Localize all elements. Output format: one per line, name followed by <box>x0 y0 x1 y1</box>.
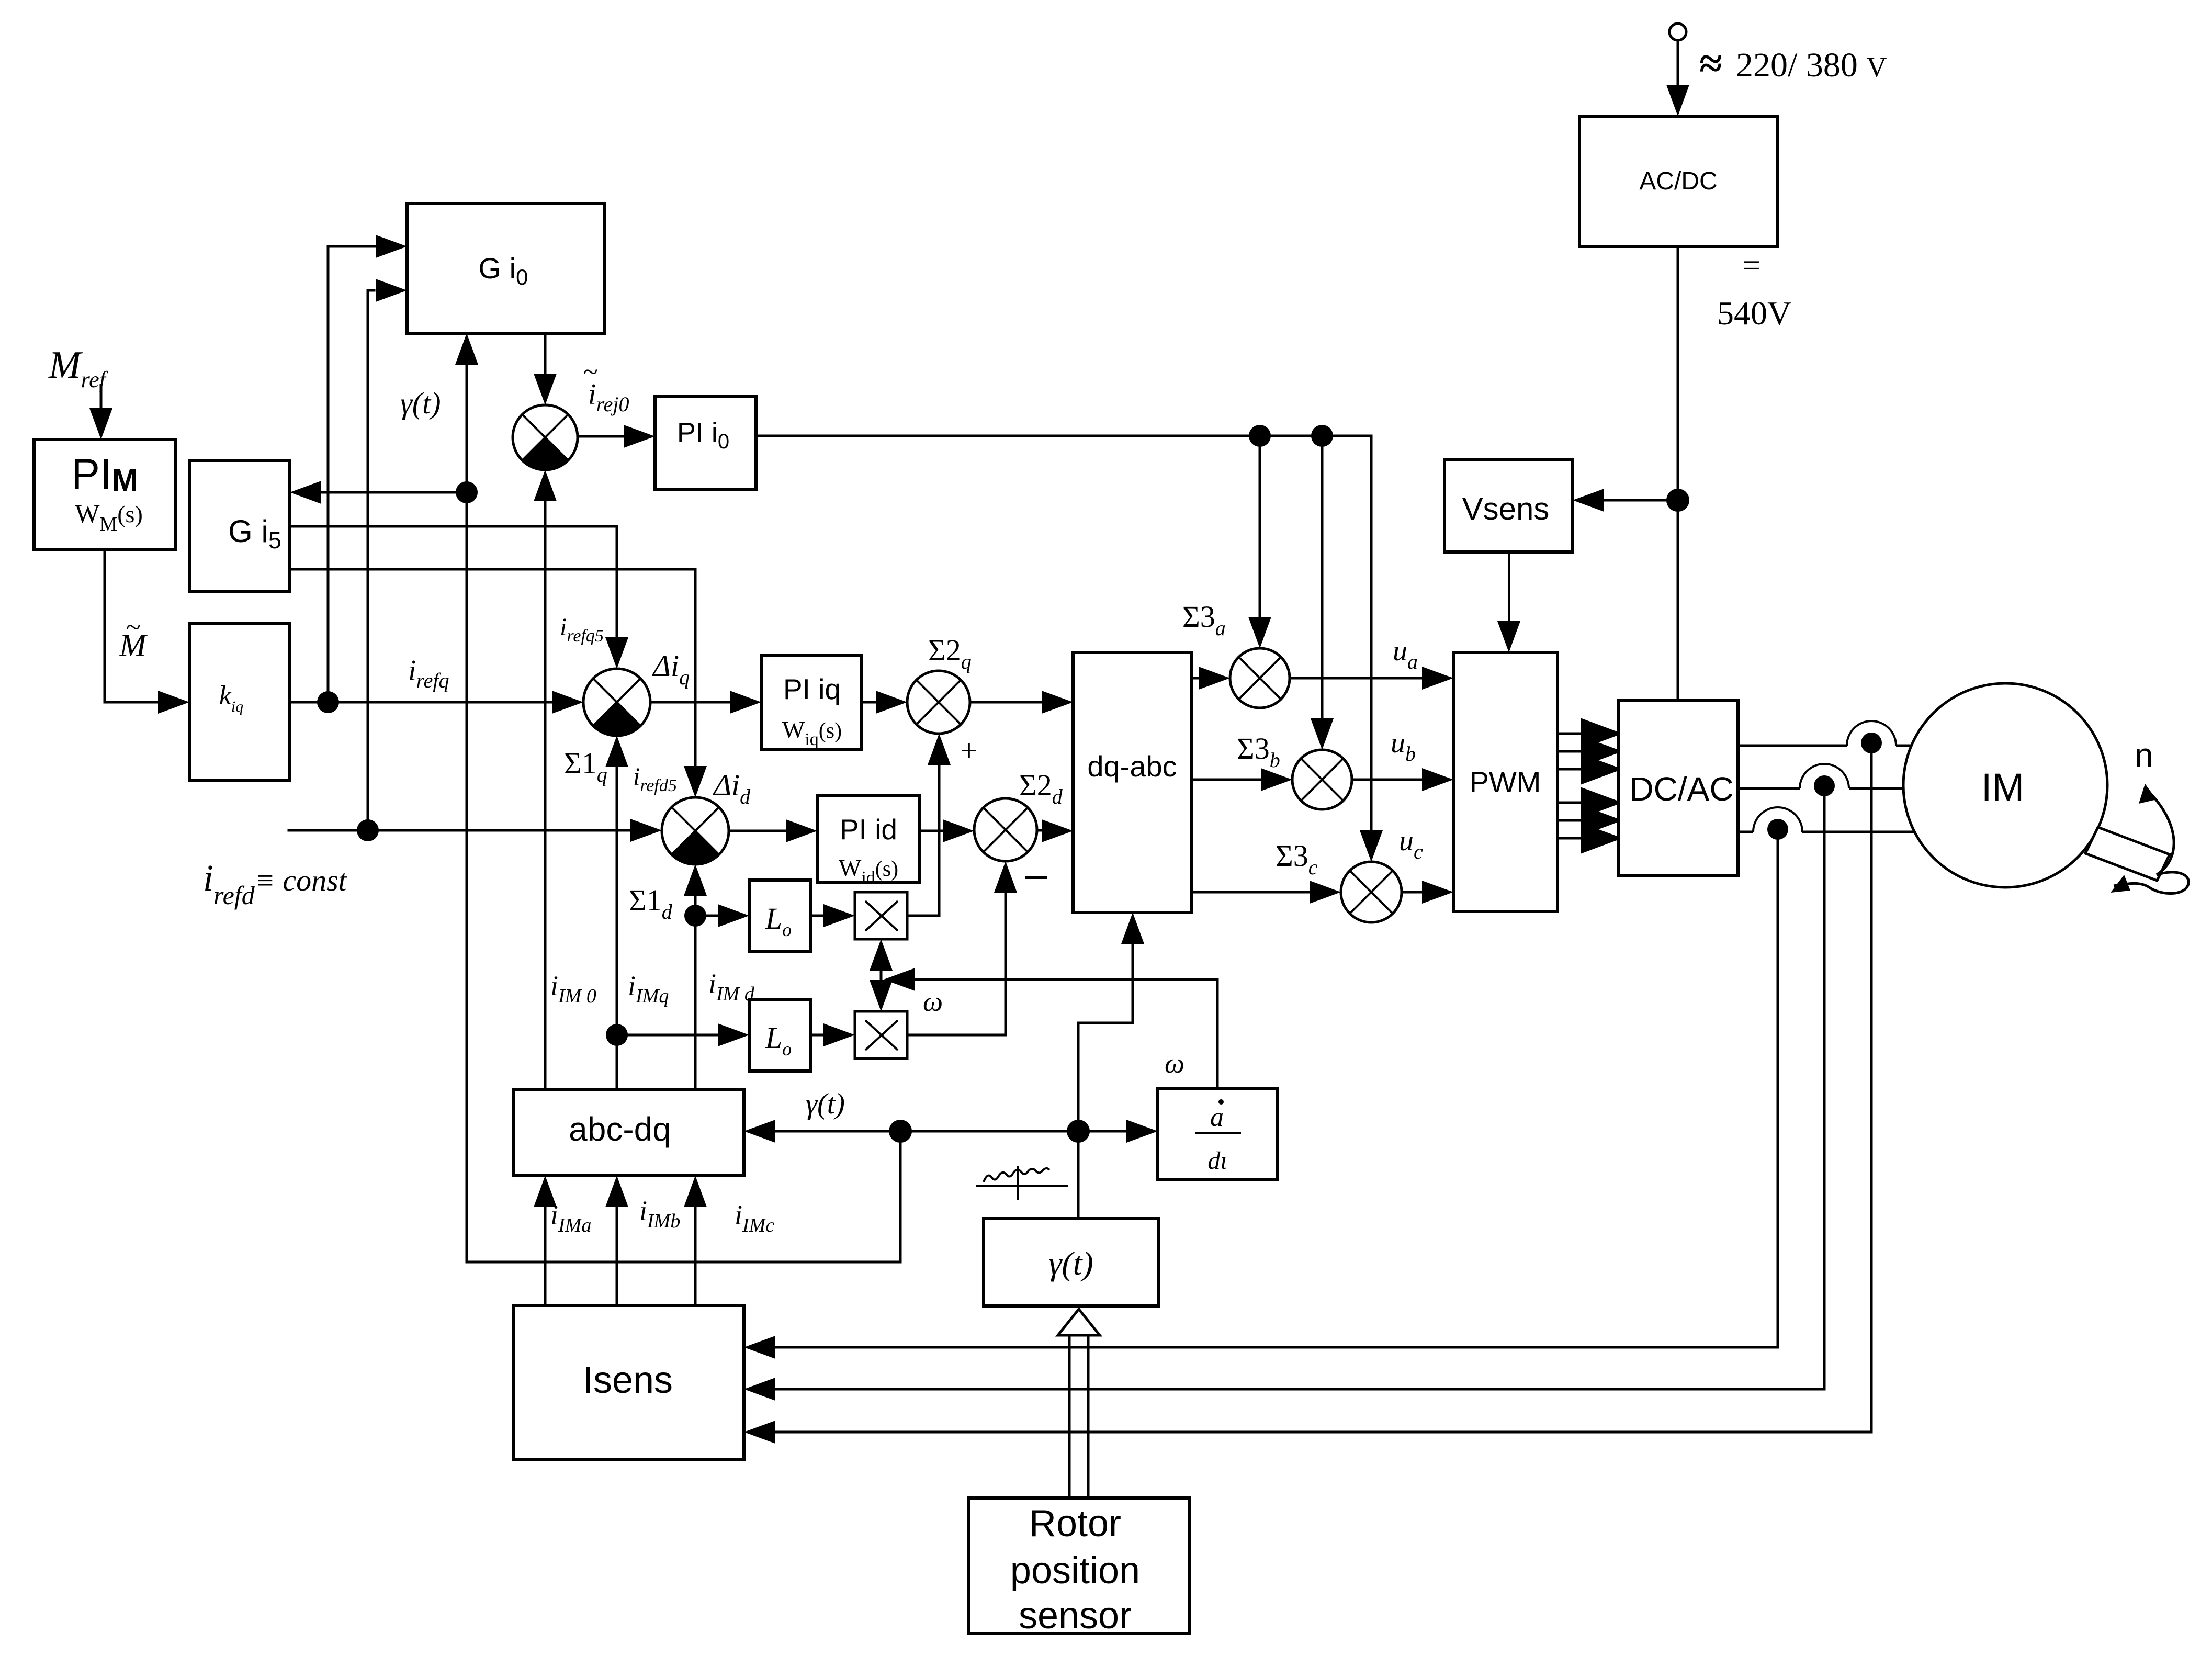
block k_iq <box>189 624 290 781</box>
wire G i5 output B to sum1d top <box>290 569 695 766</box>
wire gamma(t) vertical column to G i0 bottom <box>466 365 468 1262</box>
annotation squiggle crossed out <box>984 1168 1049 1182</box>
wire Isens output i_IMc up to abc-dq <box>694 1207 697 1305</box>
wire phase c line to IM <box>1738 831 1753 833</box>
wire PI iq output to sum2q <box>861 701 876 704</box>
svg-text:DC/AC: DC/AC <box>1629 770 1733 808</box>
node PI i0 line branch a <box>1249 425 1271 447</box>
svg-text:IM: IM <box>1981 765 2024 809</box>
current sensor phase a <box>1847 721 1896 746</box>
node on i_refd row <box>357 819 379 841</box>
summing junction sum3b <box>1292 750 1352 809</box>
wire omega line from d/dt to multipliers <box>915 979 1217 1088</box>
wire sum3b output u_b to PWM <box>1352 779 1422 781</box>
svg-text:≈: ≈ <box>1699 41 1722 87</box>
svg-text:γ(t): γ(t) <box>1048 1245 1093 1282</box>
wire Isens output i_IMa up to abc-dq <box>544 1207 547 1305</box>
node gamma row right <box>1067 1120 1090 1143</box>
wire M_ref input arrow <box>100 385 103 419</box>
svg-text:~: ~ <box>126 613 140 643</box>
summing junction sum1q <box>583 669 650 736</box>
wire dq-abc output c to sum3c <box>1192 891 1310 894</box>
svg-text:+: + <box>961 734 978 768</box>
wire sum3c output u_c to PWM <box>1402 891 1422 894</box>
wire sum0 output to PI i0 <box>577 435 624 438</box>
svg-text:a: a <box>1210 1102 1224 1132</box>
wire i_IMq column up into sum1q <box>616 767 618 1089</box>
wire G i5 output A to sum1q top <box>290 526 617 637</box>
wire i_refd row to sum1d <box>289 829 630 832</box>
node gamma row left <box>889 1120 912 1143</box>
wire dq-abc output b to sum3b <box>1192 779 1261 781</box>
block rotor position sensor <box>968 1498 1189 1634</box>
block PI i0 <box>655 396 756 489</box>
summing junction sum0 <box>513 405 578 470</box>
svg-text:sensor: sensor <box>1019 1595 1132 1637</box>
summing junction sum3a <box>1230 648 1290 708</box>
wire PI id output to sum2d <box>920 830 943 832</box>
mains terminal circle <box>1669 24 1686 40</box>
svg-text:PWM: PWM <box>1470 765 1541 798</box>
wire L_o1 to X1 <box>810 915 823 917</box>
block PI M <box>34 440 175 549</box>
wire sum1q output to PI iq <box>650 701 730 704</box>
node gamma on column <box>456 481 478 503</box>
svg-text:ω: ω <box>1165 1047 1184 1079</box>
block PI id <box>817 795 920 882</box>
wire sum1d output to PI id <box>729 830 786 832</box>
block d/dt <box>1158 1088 1278 1179</box>
block AC/DC <box>1579 116 1778 246</box>
block abc-dq <box>514 1089 744 1176</box>
wire G i0 output down to sum0 <box>544 333 547 374</box>
svg-text:540V: 540V <box>1717 295 1791 332</box>
wire L_o2 to X2 <box>810 1034 823 1037</box>
svg-text:~: ~ <box>583 357 597 387</box>
wire PWM gate signals to DC/AC (6 arrows) <box>1558 720 1619 852</box>
wire PI M output to k_iq <box>105 549 178 702</box>
wire i_IMd column up into sum1d <box>694 896 697 1089</box>
svg-text:dι: dι <box>1207 1147 1227 1175</box>
svg-text:Vsens: Vsens <box>1462 491 1550 526</box>
block gamma(t) <box>984 1219 1159 1306</box>
wire i_refq row k_iq to sum1q <box>290 701 552 704</box>
svg-text:Isens: Isens <box>583 1359 673 1401</box>
wire phase a line to IM <box>1738 745 1847 747</box>
rotation arrow n <box>2148 791 2174 875</box>
svg-text:ω: ω <box>923 986 943 1017</box>
node i_IMq branch <box>606 1024 628 1046</box>
svg-text:position: position <box>1010 1550 1140 1592</box>
node i_IMd branch <box>684 905 706 927</box>
wire i_IM0 column up into sum0 <box>544 501 547 1089</box>
block dq-abc <box>1073 652 1192 913</box>
svg-text:PI id: PI id <box>840 813 897 846</box>
wire sensor a down and into Isens input 3 <box>775 746 1871 1432</box>
wire Vsens output down to PWM top <box>1508 552 1510 621</box>
wire i_IMq to L_o2 <box>617 1034 718 1037</box>
svg-text:n: n <box>2135 736 2153 774</box>
svg-text:AC/DC: AC/DC <box>1639 167 1717 195</box>
wire mains input into AC/DC <box>1677 40 1679 85</box>
svg-text:γ(t): γ(t) <box>806 1088 845 1120</box>
svg-text:PI iq: PI iq <box>783 673 841 705</box>
wire gamma block stem <box>1077 1131 1080 1219</box>
wire gamma zigzag into dq-abc bottom <box>1078 944 1133 1131</box>
wire 540V DC bus from AC/DC to DC/AC <box>1677 246 1679 700</box>
motor shaft <box>2085 827 2170 881</box>
wire phase b line to IM <box>1738 787 1800 790</box>
current sensor phase b <box>1800 764 1849 788</box>
wire i_refq feedback up to G i0 input 1 <box>328 246 376 702</box>
summing junction sum3c <box>1341 862 1402 922</box>
node PI i0 line branch b <box>1311 425 1333 447</box>
wire gamma branch into G i5 right edge <box>321 491 467 494</box>
wire Isens output i_IMb up to abc-dq <box>616 1207 618 1305</box>
summing junction sum1d <box>662 797 729 864</box>
wire sensor b down and into Isens input 2 <box>775 788 1824 1389</box>
wire sum2q output to dq-abc <box>970 701 1042 704</box>
rotor position sensor thick arrow <box>1068 1334 1071 1498</box>
block G i5 <box>189 460 290 591</box>
block Vsens <box>1444 460 1573 552</box>
wire sum2d output to dq-abc <box>1037 829 1042 832</box>
label minus sign at sum2d <box>1025 876 1047 879</box>
wire i_refd feedback up to G i0 input 2 <box>368 290 374 830</box>
wire i_IMd to L_o1 <box>695 915 718 917</box>
svg-text:=: = <box>1742 248 1760 284</box>
svg-text:220/ 380 V: 220/ 380 V <box>1736 46 1887 84</box>
summing junction sum2q <box>907 671 970 734</box>
wire X1 output up to sum2q bottom <box>907 765 939 916</box>
node on i_refq row <box>317 691 339 713</box>
svg-text:Rotor: Rotor <box>1029 1503 1121 1545</box>
current sensor phase c <box>1753 807 1802 832</box>
multiplier X2 <box>855 1011 907 1058</box>
block L_o2 <box>749 999 810 1071</box>
wire PI i0 output feeding sum3 circles <box>756 436 1371 830</box>
wire gamma(t) row abc-dq to d/dt <box>775 1130 1126 1133</box>
motor IM circle <box>1903 683 2107 887</box>
wire gamma bottom link <box>467 1131 900 1262</box>
wire dq-abc output a to sum3a <box>1192 677 1199 680</box>
wire X2 output up to sum2d bottom <box>907 893 1006 1035</box>
block DC/AC <box>1619 700 1738 875</box>
wire omega shared segment between multipliers <box>880 963 883 992</box>
block Isens <box>514 1305 744 1460</box>
summing junction sum2d <box>974 798 1037 861</box>
svg-text:dq-abc: dq-abc <box>1087 750 1177 783</box>
block G i0 <box>407 204 605 333</box>
svg-text:abc-dq: abc-dq <box>569 1110 671 1148</box>
wire DC bus tap into Vsens <box>1604 499 1678 502</box>
block PI iq <box>761 655 861 749</box>
svg-text:γ(t): γ(t) <box>400 386 441 420</box>
wire branch down to sum3a <box>1259 436 1261 617</box>
node DC bus tap <box>1666 489 1689 512</box>
multiplier X1 <box>855 892 907 939</box>
wire sum3a output u_a to PWM <box>1290 677 1422 680</box>
wire sensor c down and into Isens input 1 <box>775 832 1778 1347</box>
block L_o1 <box>749 880 810 952</box>
block PWM <box>1453 652 1558 911</box>
wire branch down to sum3b <box>1321 436 1324 718</box>
